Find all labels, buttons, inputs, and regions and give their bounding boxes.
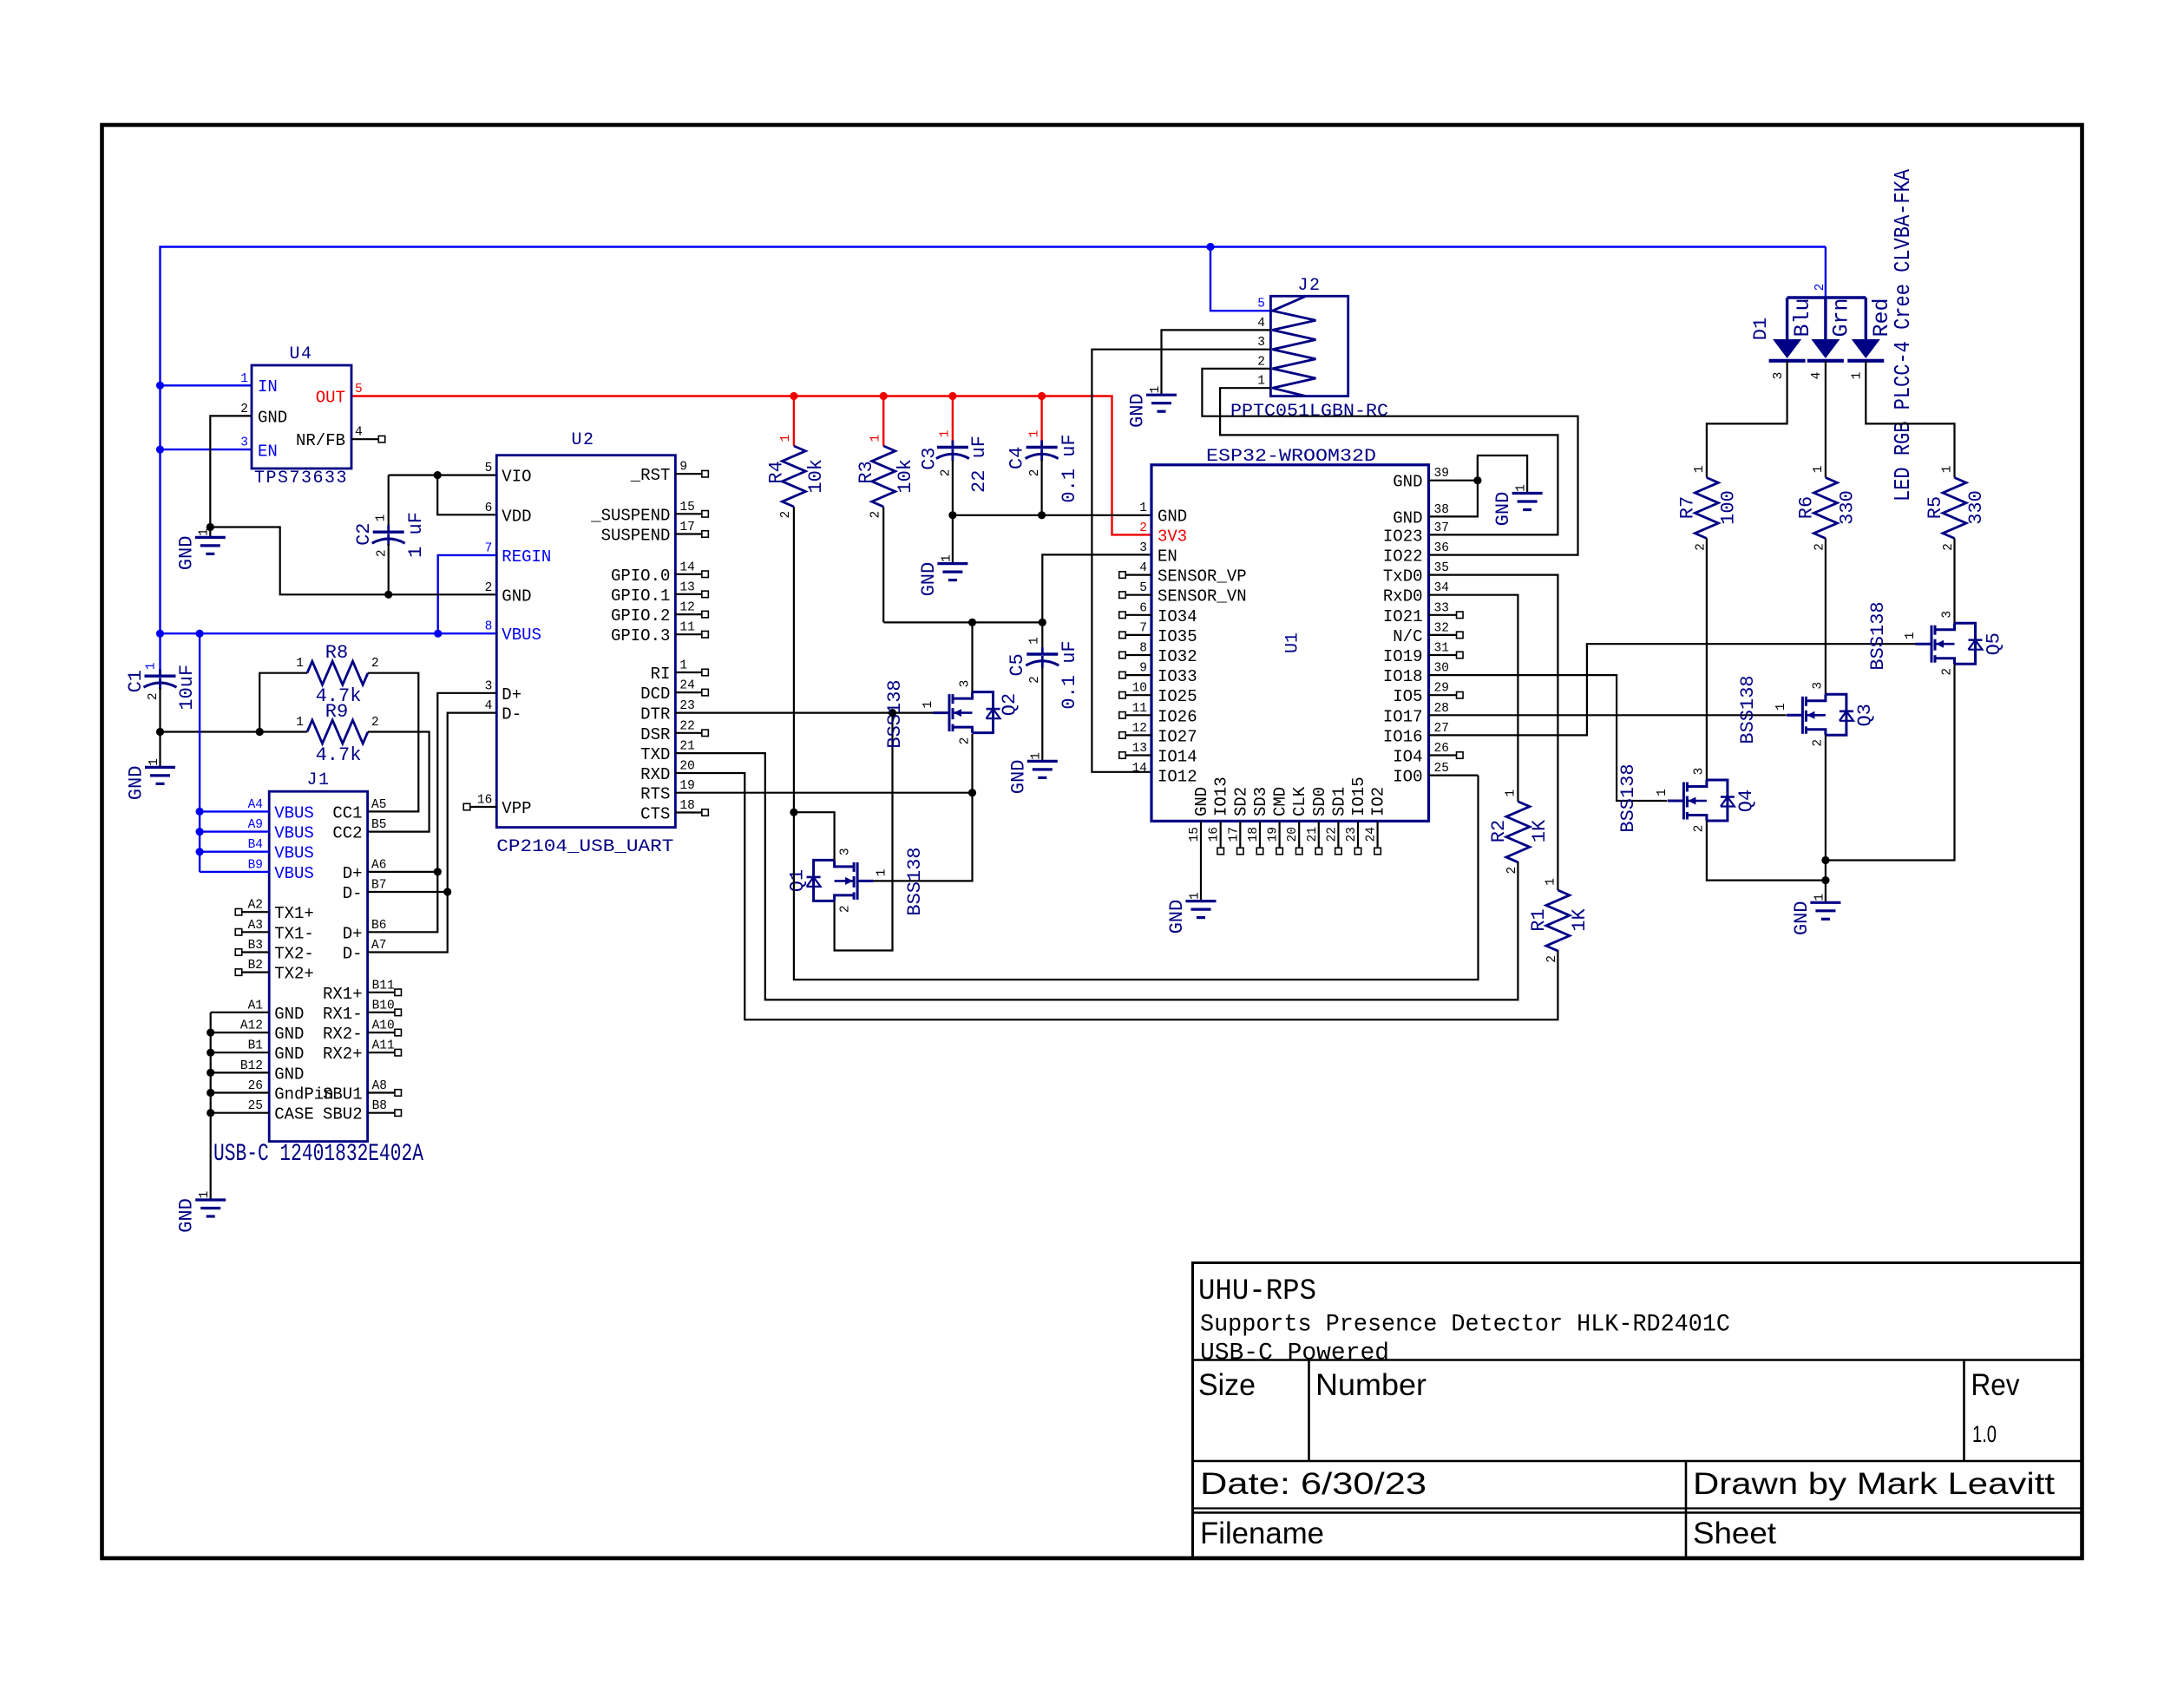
svg-text:20: 20 [679, 760, 694, 774]
svg-text:UHU-RPS: UHU-RPS [1198, 1275, 1316, 1308]
no-connect square U1 pin 20 [1295, 848, 1302, 855]
transistor Q5 BSS138 [1931, 626, 1933, 663]
regulator U4 box [252, 365, 351, 469]
no-connect square U1 IO26 [1119, 712, 1126, 719]
svg-text:DCD: DCD [640, 685, 670, 704]
ground symbol below U4 [209, 527, 211, 538]
svg-text:IO32: IO32 [1158, 647, 1197, 666]
J2 polyfuse zigzag element [1272, 296, 1315, 396]
ground symbol at J2 [1146, 394, 1177, 396]
svg-text:RX2-: RX2- [323, 1025, 363, 1044]
no-connect square U1 SENSOR_VP [1119, 572, 1126, 579]
junction J1 GND riser [207, 1049, 214, 1057]
wire J1 VBUS pin B9 [200, 871, 269, 873]
svg-text:23: 23 [1345, 827, 1359, 842]
junction VBUS at C1 riser [156, 630, 164, 638]
wire U2 TXD to R2 bottom [675, 753, 1518, 999]
svg-text:5: 5 [355, 383, 363, 396]
wire U1 pin 10 IO25 stub [1125, 694, 1151, 696]
svg-text:13: 13 [1132, 742, 1147, 756]
junction Q4 source tie [1821, 876, 1829, 884]
wire R9 pin2 to J1 CC2 [368, 732, 430, 832]
no-connect square U2 GPIO.1 [702, 591, 709, 598]
junction D+ at A6 [434, 868, 442, 875]
svg-text:IO33: IO33 [1158, 667, 1197, 686]
wire D1 anode riser from VBUS rail [1825, 247, 1827, 298]
wire J1 pin B3 TX2- stub [242, 951, 270, 953]
svg-text:39: 39 [1434, 467, 1449, 481]
svg-text:A6: A6 [371, 858, 386, 872]
svg-text:8: 8 [1139, 642, 1147, 656]
svg-text:100: 100 [1717, 490, 1739, 525]
junction RTS at Q2 source [968, 789, 976, 796]
svg-text:VIO: VIO [502, 468, 531, 487]
svg-text:GND: GND [274, 1005, 304, 1024]
wire J1 D- B7/A7 to U2 D- pin 4 [368, 891, 448, 893]
svg-text:2: 2 [376, 549, 390, 557]
svg-text:C3: C3 [918, 447, 940, 469]
svg-text:DSR: DSR [640, 725, 670, 744]
wire J2 pin 4 to ground [1162, 330, 1271, 395]
transistor Q4 BSS138 [1682, 783, 1685, 820]
svg-text:R2: R2 [1488, 820, 1510, 842]
svg-text:1: 1 [296, 716, 304, 730]
svg-text:9: 9 [679, 461, 687, 475]
svg-text:BSS138: BSS138 [1737, 675, 1759, 744]
svg-text:330: 330 [1965, 490, 1987, 525]
svg-text:15: 15 [1188, 827, 1202, 842]
title block divider Date|Drawn and Filename|Sheet [1685, 1461, 1688, 1558]
junction J1 GND riser [207, 1069, 214, 1077]
svg-text:330: 330 [1836, 490, 1858, 525]
svg-text:1K: 1K [1569, 908, 1590, 932]
svg-text:Number: Number [1315, 1368, 1426, 1402]
svg-text:2: 2 [958, 737, 972, 745]
svg-text:14: 14 [679, 560, 694, 574]
svg-text:IO15: IO15 [1349, 776, 1368, 816]
svg-text:1: 1 [1027, 637, 1041, 645]
wire U1 pin 13 IO14 stub [1125, 754, 1151, 756]
svg-text:0.1 uF: 0.1 uF [1059, 640, 1080, 709]
wire J1 pin B1 GND [211, 1052, 270, 1053]
svg-text:Q2: Q2 [999, 693, 1020, 716]
wire J1 pin B10 RX1- stub [368, 1012, 396, 1013]
capacitor C2 1uF [388, 475, 390, 533]
svg-text:3: 3 [240, 436, 248, 450]
svg-text:TX2+: TX2+ [274, 965, 314, 984]
svg-text:9: 9 [1139, 662, 1147, 676]
svg-text:Size: Size [1198, 1368, 1256, 1402]
wire U2 pin 12 GPIO.2 stub [675, 613, 702, 615]
junction 3V3 at C4 [1038, 392, 1046, 400]
wire ESP32 IO16 to Q5 gate [1429, 644, 1916, 735]
resistor R5 330 [1943, 478, 1966, 539]
svg-text:4: 4 [355, 426, 363, 440]
ground symbol below Q3/Q4/Q5 [1825, 881, 1827, 903]
svg-text:35: 35 [1434, 561, 1449, 575]
svg-text:A1: A1 [248, 999, 263, 1012]
svg-text:R4: R4 [766, 461, 788, 483]
no-connect square U1 pin 33 [1457, 612, 1464, 619]
wire R4 bottom to IO0 net with Q1 drain tap [794, 507, 1479, 980]
svg-text:Q4: Q4 [1735, 790, 1757, 812]
svg-text:1: 1 [148, 758, 161, 766]
wire DTR riser down to Q1 source [835, 713, 893, 951]
svg-text:Rev: Rev [1971, 1368, 2020, 1402]
wire Q4 source down and right to node [1707, 821, 1826, 881]
svg-text:12: 12 [679, 601, 694, 615]
no-connect square U2 _SUSPEND [702, 511, 709, 518]
svg-text:4: 4 [1257, 317, 1265, 331]
wire U1 pin 16 IO13 stub (bottom) [1220, 821, 1222, 848]
svg-text:1: 1 [1504, 790, 1518, 797]
wire U1 pin 19 CMD stub (bottom) [1278, 821, 1280, 848]
svg-text:2: 2 [1940, 668, 1954, 676]
svg-text:RXD: RXD [640, 765, 670, 784]
junction J1 VBUS A9 [196, 828, 204, 835]
svg-text:C2: C2 [353, 522, 375, 545]
title block row line under Size/Number row [1191, 1460, 2082, 1463]
svg-text:1: 1 [875, 869, 889, 877]
no-connect square J1 B8 [395, 1110, 402, 1117]
svg-text:J2: J2 [1297, 276, 1321, 296]
svg-text:3: 3 [1257, 336, 1265, 350]
svg-text:1: 1 [1693, 466, 1707, 474]
svg-text:GND: GND [918, 562, 940, 597]
svg-text:Sheet: Sheet [1693, 1517, 1776, 1550]
ground symbol right of ESP32 [1512, 492, 1543, 495]
svg-text:1: 1 [198, 1191, 212, 1199]
svg-text:RTS: RTS [640, 785, 670, 804]
svg-text:SENSOR_VP: SENSOR_VP [1158, 567, 1247, 586]
svg-text:22 uF: 22 uF [968, 436, 990, 493]
wire Q2 source down and to Q1 gate [874, 734, 973, 881]
wire J1 pin A3 TX1- stub [242, 931, 270, 933]
svg-text:37: 37 [1434, 521, 1449, 535]
svg-text:ESP32-WROOM32D: ESP32-WROOM32D [1206, 447, 1376, 467]
svg-text:REGIN: REGIN [502, 547, 551, 567]
resistor R4 10k [782, 446, 805, 507]
svg-text:BSS138: BSS138 [884, 679, 906, 748]
wire U2 pin 15 _SUSPEND stub [675, 513, 702, 514]
junction D- at B7 [443, 888, 451, 895]
no-connect square U1 pin 32 [1457, 632, 1464, 639]
capacitor C5 0.1 uF [1041, 622, 1043, 654]
svg-text:IN: IN [258, 377, 278, 396]
junction VIO/VDD node [434, 471, 442, 479]
junction J1 VBUS B4 [196, 848, 204, 855]
junction EN rail at C5/EN riser [1039, 619, 1046, 626]
wire D1 Grn cathode to R6 [1825, 361, 1827, 478]
no-connect square U1 IO34 [1119, 612, 1126, 619]
wire R7 to Q4 drain [1706, 539, 1708, 781]
svg-text:VPP: VPP [502, 799, 531, 818]
svg-text:12: 12 [1132, 722, 1147, 736]
connector J1 USB-C box [269, 791, 367, 1141]
svg-text:C5: C5 [1007, 653, 1028, 676]
svg-text:1.0: 1.0 [1972, 1421, 1997, 1447]
svg-text:1: 1 [1812, 466, 1826, 474]
svg-text:A11: A11 [372, 1039, 395, 1053]
svg-text:VBUS: VBUS [502, 626, 541, 645]
wire J1 pin B12 GND [211, 1071, 270, 1073]
svg-text:RX2+: RX2+ [323, 1045, 363, 1064]
svg-text:1: 1 [198, 528, 212, 536]
svg-text:TPS73633: TPS73633 [254, 469, 348, 488]
svg-text:2: 2 [371, 716, 379, 730]
wire U2 RTS to Q2 source column [675, 792, 972, 794]
svg-text:NR/FB: NR/FB [296, 431, 345, 450]
svg-text:4: 4 [1810, 372, 1824, 380]
wire J1 pin A12 GND [211, 1032, 270, 1033]
wire J1 pin B8 SBU2 stub [368, 1112, 396, 1114]
svg-text:C4: C4 [1006, 447, 1027, 469]
svg-text:GPIO.1: GPIO.1 [611, 586, 670, 606]
resistor R3 10k [872, 446, 895, 507]
svg-text:DTR: DTR [640, 705, 670, 724]
svg-text:A12: A12 [240, 1019, 263, 1033]
svg-text:2: 2 [1257, 355, 1265, 369]
svg-text:1: 1 [1941, 466, 1955, 474]
svg-text:TxD0: TxD0 [1383, 567, 1423, 586]
svg-text:IO16: IO16 [1383, 727, 1423, 746]
svg-text:R1: R1 [1528, 908, 1550, 931]
wire D1 Red cathode to R5 [1866, 361, 1954, 478]
svg-text:GND: GND [1192, 787, 1211, 816]
svg-text:D+: D+ [343, 864, 363, 883]
svg-text:6: 6 [1139, 601, 1147, 615]
svg-text:D-: D- [502, 705, 521, 724]
svg-text:1: 1 [1656, 789, 1669, 796]
svg-text:R8: R8 [325, 642, 348, 664]
wire VBUS branch down to J2 pin 5 [1210, 247, 1270, 311]
svg-text:SD2: SD2 [1231, 787, 1250, 816]
sheet border frame [102, 125, 2082, 1558]
svg-text:3: 3 [485, 679, 493, 693]
svg-text:3V3: 3V3 [1158, 527, 1187, 546]
no-connect square U1 pin 26 [1457, 752, 1464, 759]
svg-text:RX1-: RX1- [323, 1005, 363, 1024]
wire J1 pin A10 RX2- stub [368, 1032, 396, 1033]
wire ESP32 IO0 stub to riser [1429, 774, 1479, 776]
svg-text:VBUS: VBUS [274, 864, 314, 883]
svg-text:GND: GND [1007, 760, 1029, 795]
svg-text:10uF: 10uF [176, 665, 198, 711]
svg-text:B10: B10 [372, 999, 395, 1012]
svg-text:TX1-: TX1- [274, 924, 314, 943]
svg-text:VBUS: VBUS [274, 844, 314, 863]
svg-text:17: 17 [1227, 827, 1241, 842]
svg-text:1: 1 [1027, 430, 1041, 438]
junction VBUS at U2 REGIN riser [434, 630, 442, 638]
svg-text:0.1 uF: 0.1 uF [1059, 434, 1080, 502]
svg-text:2: 2 [1139, 521, 1147, 535]
wire U1 GND pin 15 to ground [1200, 821, 1202, 901]
svg-text:C1: C1 [125, 670, 147, 692]
svg-text:32: 32 [1434, 621, 1449, 635]
svg-text:_SUSPEND: _SUSPEND [590, 506, 670, 525]
svg-text:1: 1 [679, 659, 687, 673]
svg-text:IO35: IO35 [1158, 627, 1197, 646]
svg-text:3: 3 [1940, 611, 1954, 619]
ground symbol below C5 [1027, 760, 1058, 763]
junction ground tie at C4 [1038, 511, 1046, 519]
transistor Q2 BSS138 [948, 694, 951, 731]
svg-text:CC1: CC1 [332, 803, 362, 822]
svg-text:GND: GND [126, 766, 148, 801]
svg-text:IO34: IO34 [1158, 607, 1197, 626]
svg-text:1: 1 [1813, 894, 1827, 901]
svg-text:8: 8 [485, 619, 493, 633]
svg-text:19: 19 [1267, 827, 1281, 842]
svg-text:26: 26 [1434, 742, 1449, 756]
ground symbol below ESP32 [1186, 900, 1217, 902]
svg-text:25: 25 [1434, 762, 1449, 776]
wire R8 pin2 to J1 CC1 [368, 673, 419, 812]
svg-text:30: 30 [1434, 662, 1449, 676]
svg-text:R5: R5 [1925, 496, 1946, 519]
wire VBUS top rail from left riser to D1 anode riser [161, 247, 1826, 634]
svg-text:Date: 6/30/23: Date: 6/30/23 [1200, 1467, 1426, 1501]
svg-text:CC2: CC2 [332, 824, 362, 843]
wire R3 pin1 stub red [882, 396, 884, 447]
svg-text:B4: B4 [248, 838, 263, 852]
no-connect square J1 A10 [395, 1029, 402, 1036]
no-connect square U1 SENSOR_VN [1119, 592, 1126, 599]
wire R6 to Q3 drain [1825, 539, 1827, 695]
svg-text:38: 38 [1434, 503, 1449, 517]
svg-text:21: 21 [679, 740, 694, 754]
title block outline [1193, 1263, 2083, 1559]
svg-text:2: 2 [371, 657, 379, 671]
junction J1 GND riser [207, 1109, 214, 1117]
svg-text:GND: GND [175, 536, 197, 571]
svg-text:SBU1: SBU1 [323, 1085, 363, 1104]
wire U1 pin 31 IO19 stub [1429, 654, 1457, 656]
svg-text:2: 2 [1545, 955, 1559, 963]
svg-text:B6: B6 [371, 919, 386, 933]
resistor R9 4.7k (horizontal) [307, 720, 368, 744]
wire U4 NR/FB pin 4 stub [351, 438, 379, 440]
svg-text:3: 3 [958, 680, 972, 688]
wire J1 GND riser to ground [210, 1012, 212, 1200]
title block double row line above Filename row [1191, 1507, 2082, 1509]
svg-text:2: 2 [147, 692, 161, 700]
svg-text:22: 22 [679, 719, 694, 733]
no-connect square U1 pin 29 [1457, 691, 1464, 698]
svg-text:GND: GND [274, 1025, 304, 1044]
svg-text:CP2104_USB_UART: CP2104_USB_UART [496, 837, 673, 857]
svg-text:1: 1 [921, 701, 935, 709]
svg-text:33: 33 [1434, 601, 1449, 615]
svg-text:34: 34 [1434, 581, 1449, 595]
svg-text:25: 25 [248, 1099, 263, 1113]
junction IO0 net at Q1 drain [790, 809, 797, 816]
wire EN rail R3-C5-EN [884, 621, 1043, 623]
svg-text:RxD0: RxD0 [1383, 587, 1423, 606]
wire U1 pin 6 IO34 stub [1125, 614, 1151, 616]
svg-text:VDD: VDD [502, 507, 531, 526]
svg-text:26: 26 [248, 1079, 263, 1093]
svg-text:RX1+: RX1+ [323, 985, 363, 1004]
no-connect square J1 B3 [235, 949, 242, 956]
no-connect square U1 pin 18 [1256, 848, 1263, 855]
svg-text:B5: B5 [371, 818, 386, 832]
svg-text:2: 2 [240, 403, 248, 416]
svg-text:CTS: CTS [640, 805, 670, 824]
svg-text:36: 36 [1434, 541, 1449, 555]
svg-text:22: 22 [1325, 827, 1339, 842]
svg-text:19: 19 [679, 779, 694, 793]
no-connect square J1 B10 [395, 1009, 402, 1016]
wire J1 pin A1 GND [211, 1012, 270, 1013]
svg-text:A10: A10 [372, 1019, 395, 1033]
wire U2 pin 18 CTS stub [675, 811, 702, 813]
svg-text:USB-C Powered: USB-C Powered [1200, 1340, 1389, 1367]
no-connect square U1 pin 24 [1374, 848, 1381, 855]
svg-text:1K: 1K [1529, 819, 1551, 842]
wire 3V3 rail from U4 OUT to ESP32 3V3 pin 2 [351, 396, 1151, 535]
svg-text:VBUS: VBUS [274, 824, 314, 843]
junction C2 pin 2 on GND wire [384, 591, 392, 599]
no-connect square J1 A11 [395, 1049, 402, 1056]
svg-text:IO14: IO14 [1158, 748, 1197, 767]
svg-text:6: 6 [485, 501, 493, 515]
LED D1 anode bus [1787, 296, 1866, 298]
title block row line under USB-C Powered [1191, 1359, 2082, 1361]
svg-text:CASE: CASE [274, 1105, 314, 1124]
wire ESP32 TxD0 to R1 top [1429, 575, 1558, 890]
USB-UART U2 box [496, 455, 675, 828]
wire Q3 source to ground node [1825, 735, 1827, 880]
svg-text:IO27: IO27 [1158, 727, 1197, 746]
junction U4 GND node [207, 523, 214, 531]
wire J1 pin 26 GndPin [211, 1091, 270, 1093]
wire U1 pin 21 SD0 stub (bottom) [1318, 821, 1320, 848]
svg-text:1: 1 [1139, 501, 1147, 515]
svg-text:1: 1 [940, 554, 954, 562]
wire J1 pin 25 CASE [211, 1112, 270, 1114]
svg-text:29: 29 [1434, 682, 1449, 696]
svg-text:7: 7 [485, 541, 493, 555]
junction 3V3 at C3 [948, 392, 956, 400]
wire U2 pin 14 GPIO.0 stub [675, 573, 702, 575]
wire U2 pin 22 DSR stub [675, 732, 702, 734]
wire U1 pin 12 IO27 stub [1125, 734, 1151, 736]
svg-text:TX2-: TX2- [274, 945, 314, 964]
wire ESP32 GND39/GND38 to ground [1429, 455, 1528, 516]
wire U4 GND pin 2 to ground and to C2/U2 GND [210, 416, 252, 527]
svg-text:IO4: IO4 [1393, 748, 1422, 767]
wire J1 pin A2 TX1+ stub [242, 911, 270, 913]
wire VDD branch to U2 VDD pin 6 [437, 475, 496, 515]
transistor Q3 BSS138 [1801, 697, 1804, 734]
svg-text:2: 2 [1812, 739, 1826, 747]
svg-text:N/C: N/C [1393, 627, 1422, 646]
svg-text:GND: GND [274, 1045, 304, 1064]
svg-text:A3: A3 [248, 919, 263, 933]
svg-text:3: 3 [1693, 768, 1707, 776]
svg-text:GND: GND [176, 1198, 198, 1233]
junction GND38/39 node [1473, 476, 1481, 484]
svg-text:IO12: IO12 [1158, 768, 1197, 787]
svg-text:TXD: TXD [640, 745, 670, 764]
svg-text:GND: GND [1393, 473, 1422, 492]
wire C3 pin1 stub red [952, 396, 954, 448]
junction VBUS at J1 riser [196, 630, 204, 638]
no-connect square U2 _RST [702, 470, 709, 477]
wire U2 RXD to R1 bottom [675, 773, 1558, 1019]
